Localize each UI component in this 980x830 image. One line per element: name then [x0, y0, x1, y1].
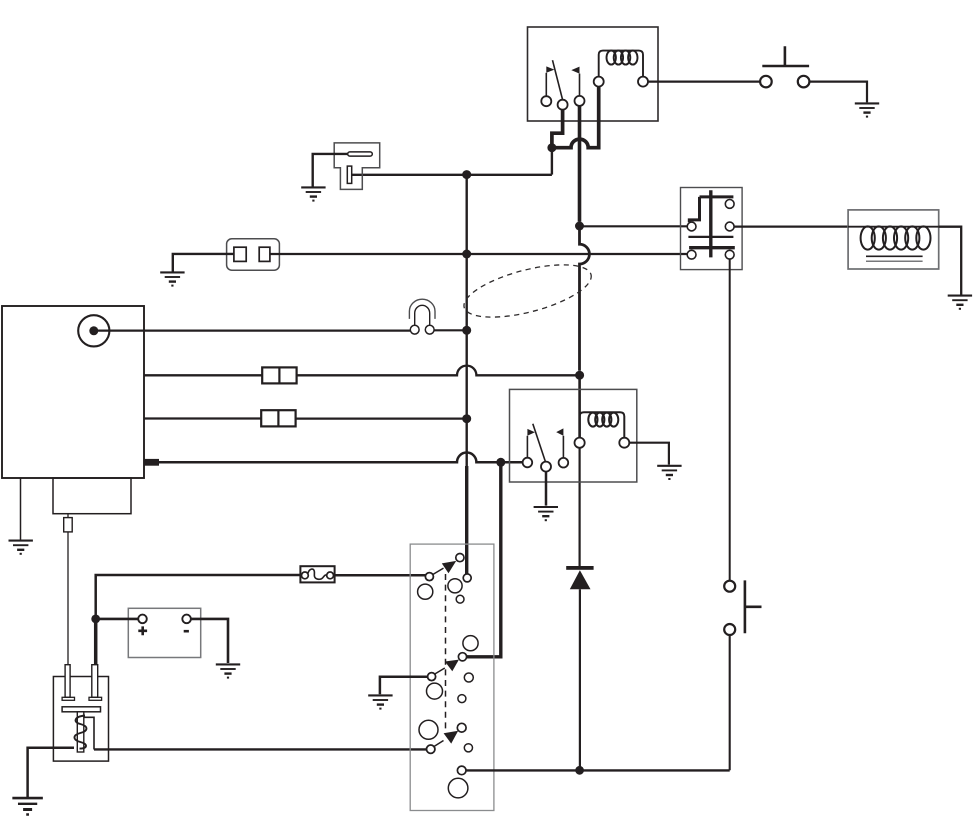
ignition switch stud circle c — [456, 595, 464, 603]
node branch to ignition switch — [496, 458, 505, 467]
engine module stem — [67, 514, 69, 518]
battery negative terminal — [182, 615, 191, 624]
starter internal link — [84, 717, 94, 749]
dashed harness ellipse — [459, 254, 596, 327]
starter plunger — [77, 712, 84, 752]
diode D1 cathode bar — [566, 566, 593, 570]
node battery junction — [91, 615, 100, 624]
interlock step link — [689, 197, 699, 222]
relay K2 contact terminal left — [523, 458, 533, 468]
relay K2 fixed contact post and flag (left) — [527, 429, 535, 458]
wire battery positive to junction — [99, 618, 138, 621]
interlock terminal top right — [725, 200, 734, 209]
clutch coil windings — [861, 226, 931, 249]
ground at engine — [9, 541, 33, 554]
engine module pin — [64, 518, 72, 532]
relay K1 coil terminal left — [594, 77, 604, 87]
wire branch down to ignition switch contact — [467, 462, 501, 657]
ignition switch wiper 3 pivot — [427, 745, 435, 753]
ground at P2 — [160, 272, 184, 285]
push button S2 top contact — [724, 581, 735, 592]
relay K1 contact terminal left — [541, 96, 551, 106]
wire bus A vertical lower into switch panel — [465, 466, 468, 574]
connector P2 body — [227, 239, 280, 270]
wire interlock to clutch coil — [734, 226, 848, 228]
ignition switch stud circle h — [419, 720, 438, 739]
wire bus B from K1 to node y226 — [578, 106, 582, 222]
ground at S1 — [855, 103, 879, 116]
push button S2 actuator — [745, 580, 762, 633]
battery box — [128, 608, 200, 657]
ground at starter (large) — [12, 798, 42, 815]
battery positive terminal — [138, 615, 147, 624]
relay K2 common terminal — [541, 462, 551, 472]
clutch coil core line 1 — [866, 255, 923, 257]
wire P2 to ground — [173, 254, 234, 272]
starter terminal left base — [62, 697, 74, 700]
relay K1 contact terminal right — [575, 96, 585, 106]
wire engine lead 2 to fuse F2 — [144, 417, 261, 419]
ignition switch stud circle e — [427, 683, 443, 699]
wire jumper to bus A — [434, 329, 467, 331]
interlock terminal bottom right — [725, 250, 734, 259]
ignition switch output contact — [457, 766, 466, 775]
ignition switch wiper 1 — [433, 561, 457, 575]
push button S1 actuator — [762, 46, 809, 66]
clutch coil core line 2 — [866, 260, 923, 262]
wire P2 to interlock connector — [270, 253, 688, 255]
ignition switch wiper 2 pivot — [428, 673, 436, 681]
interlock terminal mid left — [687, 222, 696, 231]
connector P2 right pin — [259, 247, 270, 261]
spark plug terminal dot — [89, 326, 98, 335]
ground at battery — [216, 664, 240, 677]
ignition switch contact S — [458, 653, 466, 661]
wire bus B to relay K2 coil — [578, 375, 581, 438]
wire from K1 common terminal down — [552, 110, 563, 146]
ground at K2 common — [534, 507, 558, 520]
relay K1 box — [528, 27, 659, 121]
starter contact bar — [62, 707, 100, 712]
engine box — [2, 306, 144, 478]
node bus A at y418 — [462, 414, 471, 423]
fuse F3 terminal left — [302, 572, 309, 579]
ignition switch contact B — [456, 554, 464, 562]
wire horizontal run to T-connector — [352, 174, 552, 176]
starter terminal right — [92, 665, 98, 698]
wire bus A vertical upper — [466, 175, 468, 466]
wire interlock down to push button S2 — [729, 259, 731, 581]
wire wiper 2 to ground — [380, 677, 428, 695]
ignition switch wiper 1 pivot — [425, 573, 433, 581]
connector P1 vertical terminal — [347, 166, 351, 183]
starter solenoid box — [53, 677, 108, 762]
relay K2 contact terminal right — [559, 458, 569, 468]
wire junction up to fuse F3 — [96, 575, 301, 619]
relay K1 fixed contact post and flag (NO) — [571, 67, 579, 96]
wire clutch coil to ground — [939, 227, 962, 295]
fuse F2 — [261, 410, 295, 426]
ground at wiper 2 — [368, 695, 392, 708]
wire F1 to bus B with hop over bus A — [297, 366, 580, 376]
relay K1 movable arm — [553, 60, 563, 100]
wire bus B diode to bottom run — [579, 589, 581, 770]
ignition switch contact M — [457, 723, 466, 732]
clutch coil rail wire — [848, 226, 939, 228]
interlock center bar — [709, 190, 712, 257]
interlock connector box — [681, 188, 743, 270]
push button S1 right contact — [798, 76, 810, 88]
connector P1 horizontal terminal — [348, 152, 373, 156]
wire F2 to bus A — [296, 417, 463, 419]
connector P1 T-shaped shell — [334, 143, 380, 190]
ground at clutch coil — [948, 296, 972, 309]
fuse F1 — [262, 367, 296, 383]
ignition switch stud circle d — [463, 636, 478, 651]
wire K1 coil-left to junction with hop over bus B — [552, 87, 599, 148]
ignition switch wiper 3 — [434, 731, 458, 747]
spark plug terminal circle — [78, 315, 109, 346]
relay K2 box — [510, 389, 637, 482]
starter solenoid spring — [74, 716, 86, 749]
jumper wire arch — [415, 305, 430, 325]
engine module box — [53, 478, 131, 514]
interlock middle bar — [688, 236, 733, 238]
ignition switch wiper 2 — [435, 660, 459, 674]
wire S1 to ground — [809, 82, 867, 103]
jumper connector shell arch — [409, 299, 435, 319]
wire bus B node to interlock connector — [580, 225, 688, 227]
fuse F3 body — [300, 566, 334, 582]
wire P1 to ground — [313, 154, 348, 187]
wire engine magneto to jumper — [98, 330, 411, 332]
relay K1 common terminal — [558, 100, 568, 110]
wire K2 coil to ground — [629, 443, 669, 465]
relay K1 fixed contact post and flag (NC) — [546, 66, 554, 96]
relay K2 coil terminal right — [619, 438, 629, 448]
clutch coil box — [848, 210, 939, 269]
ignition switch mechanical dashed link — [445, 574, 447, 731]
wire K1 coil to push button S1 — [648, 80, 760, 82]
ignition switch stud circle b — [448, 579, 462, 593]
ignition switch stud circle j — [448, 778, 468, 798]
wire engine spade to relay K2 with hop over bus A — [159, 453, 523, 463]
node junction below K1 — [547, 143, 556, 152]
connector P2 left pin — [234, 247, 246, 261]
push button S2 bottom contact — [724, 624, 735, 635]
ignition switch stud circle a — [418, 584, 433, 599]
node bottom junction — [575, 766, 584, 775]
relay K2 coil terminal left on bus B — [575, 438, 585, 448]
relay K1 coil terminal right — [638, 77, 648, 87]
wire starter to ground — [28, 748, 74, 797]
node bus B at y226 — [575, 222, 584, 231]
interlock top bar — [700, 195, 734, 198]
ignition switch panel box — [410, 544, 494, 810]
node bus A at y254 — [462, 250, 471, 259]
ground at P1 — [301, 187, 325, 200]
ignition switch stud circle f — [464, 673, 473, 682]
starter terminal left — [65, 665, 70, 698]
wire junction down to horizontal run — [551, 148, 553, 175]
interlock terminal bottom left — [687, 250, 696, 259]
relay K2 coil — [580, 412, 625, 437]
wire junction down to starter terminal — [94, 619, 98, 665]
wire engine module pin to starter terminal — [67, 532, 69, 665]
interlock bottom bar — [689, 246, 735, 249]
wire K2 common to ground — [545, 472, 548, 506]
node bus A top junction — [462, 170, 471, 179]
wire engine to ground — [20, 478, 22, 540]
wire battery negative to ground — [191, 619, 228, 663]
engine terminal spade (black) — [144, 459, 159, 466]
wire S2 down to bottom run — [729, 635, 731, 770]
wire engine kill lead to fuse F1 — [144, 374, 262, 376]
jumper terminal right — [425, 325, 434, 334]
interlock terminal mid right — [725, 222, 734, 231]
push button S1 left contact — [760, 76, 772, 88]
ignition switch stud circle i — [464, 744, 472, 752]
ground at K2 coil — [657, 466, 681, 479]
ignition switch stud circle g — [458, 695, 466, 703]
relay K2 fixed contact post and flag (right) — [556, 428, 563, 458]
diode D1 anode triangle — [570, 570, 591, 589]
relay K2 movable arm — [533, 424, 546, 462]
wire F3 to ignition switch — [335, 574, 426, 577]
wire bus B relay K2 coil to diode — [578, 448, 580, 566]
node bus B at y375 — [575, 371, 584, 380]
fuse F3 element squiggle — [308, 569, 327, 579]
jumper terminal left — [410, 325, 419, 334]
wire starter to ignition switch — [94, 748, 427, 750]
relay K1 coil — [599, 51, 643, 77]
battery plus sign — [138, 626, 147, 635]
wire bottom run ignition switch to push button S2 — [466, 769, 730, 771]
starter terminal right base — [89, 697, 102, 700]
fuse F3 terminal right — [327, 572, 334, 579]
wire bus B with hop over y254 wire — [580, 226, 590, 371]
ignition switch bus A terminal — [463, 574, 471, 582]
node bus A at y330 — [462, 326, 471, 335]
battery minus sign — [184, 630, 189, 633]
